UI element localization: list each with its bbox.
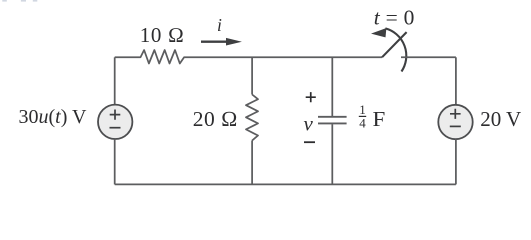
switch blade [382, 32, 407, 57]
wire: left branch lower [114, 139, 116, 184]
svg-text:30u(t) V: 30u(t) V [19, 106, 88, 128]
wire: right branch upper [455, 57, 457, 105]
capacitor C1 bottom plate [318, 122, 347, 124]
switch motion arc [385, 28, 406, 71]
svg-text:F: F [373, 107, 386, 131]
voltage source V2 circle [438, 105, 472, 139]
capacitor voltage plus label [306, 92, 316, 102]
wire: right branch lower [455, 139, 457, 184]
svg-text:4: 4 [359, 115, 366, 130]
svg-text:20 V: 20 V [480, 107, 521, 131]
capacitor C1 top plate [318, 116, 347, 118]
svg-text:t = 0: t = 0 [374, 6, 415, 30]
resistor R2 zigzag vertical [246, 95, 258, 141]
wire: 20 ohm branch lower stub [251, 141, 253, 185]
voltage source V1 circle [98, 105, 132, 139]
V2 minus sign [450, 125, 461, 127]
wire: capacitor branch upper stub [331, 57, 333, 116]
V1 minus sign [110, 127, 121, 129]
svg-text:20 Ω: 20 Ω [193, 107, 238, 131]
wire: capacitor branch lower stub [331, 124, 333, 184]
wire: left branch upper [114, 57, 116, 104]
switch arc arrowhead [371, 28, 386, 37]
svg-text:v: v [304, 112, 314, 136]
current arrow i [201, 38, 242, 46]
cropped text remnant top-left [2, 0, 37, 2]
wire: top rail right of switch [401, 56, 456, 58]
capacitor voltage minus label [304, 141, 315, 143]
wire: 20 ohm branch upper stub [251, 57, 253, 94]
svg-text:i: i [217, 15, 222, 35]
V2 plus sign [450, 109, 461, 119]
wire: top rail with resistor R1 zigzag [115, 50, 382, 64]
svg-text:10 Ω: 10 Ω [140, 23, 185, 47]
V1 plus sign [110, 110, 121, 120]
capacitor value label 1/4 F [359, 102, 386, 131]
wire: bottom rail [115, 183, 456, 185]
